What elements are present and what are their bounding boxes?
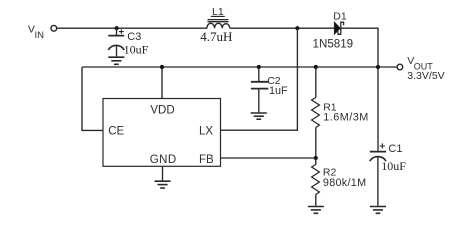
svg-text:LX: LX (199, 125, 213, 137)
FB wire (221, 157, 316, 159)
wire rail to VOUT terminal (378, 66, 397, 68)
terminal VIN (51, 25, 57, 31)
wire VIN to L1 (57, 27, 207, 29)
svg-text:1.6M/3M: 1.6M/3M (323, 112, 369, 124)
diode D1 (schottky) (334, 22, 340, 34)
svg-text:GND: GND (150, 154, 177, 166)
ground C2 (251, 112, 267, 114)
svg-text:C3: C3 (127, 31, 141, 43)
plus sign C1 (380, 143, 385, 148)
inductor L1 (207, 23, 230, 28)
junction dot C3/top wire (115, 26, 119, 30)
inductor L1 core bars (208, 19, 229, 21)
wire D1 to VOUT corner, down to C1 (341, 28, 378, 151)
junction dot VOUT/rail (376, 65, 380, 69)
svg-text:1uF: 1uF (269, 85, 288, 97)
ground R2 (308, 206, 324, 208)
svg-text:10uF: 10uF (124, 43, 149, 57)
junction dot VDD/rail (160, 65, 164, 69)
svg-text:C1: C1 (388, 143, 402, 155)
svg-text:FB: FB (199, 154, 214, 166)
VDD stub wire (161, 67, 163, 99)
ground GND pin (155, 180, 171, 182)
LX wire riser (221, 28, 298, 130)
svg-text:4.7uH: 4.7uH (200, 29, 232, 44)
CE riser wire (82, 67, 103, 130)
IC U1 body (103, 99, 221, 167)
svg-text:VDD: VDD (150, 105, 174, 117)
capacitor C1 (polarized) (370, 151, 386, 153)
svg-text:980k/1M: 980k/1M (323, 177, 367, 189)
capacitor C2 (258, 67, 260, 81)
terminal VOUT (397, 64, 403, 70)
ground C1 (370, 206, 386, 208)
plus sign C3 (119, 29, 124, 33)
svg-text:10uF: 10uF (381, 159, 406, 173)
ground C3 (108, 56, 124, 58)
svg-text:D1: D1 (333, 10, 347, 22)
svg-text:3.3V/5V: 3.3V/5V (407, 70, 444, 82)
junction dot FB/R1/R2 (314, 156, 318, 160)
svg-text:1N5819: 1N5819 (313, 37, 354, 50)
GND stub wire (162, 166, 164, 180)
junction dot LX riser/top wire (295, 26, 299, 30)
resistor R1 (315, 67, 317, 98)
junction dot R1/rail (314, 65, 318, 69)
wire L1 to D1 (230, 27, 334, 29)
svg-text:IN: IN (35, 30, 45, 41)
vout rail (82, 66, 378, 68)
junction dot C2/rail (257, 65, 261, 69)
svg-text:CE: CE (108, 125, 124, 137)
resistor R2 (315, 158, 317, 165)
capacitor C3 (polarized) (116, 28, 118, 35)
